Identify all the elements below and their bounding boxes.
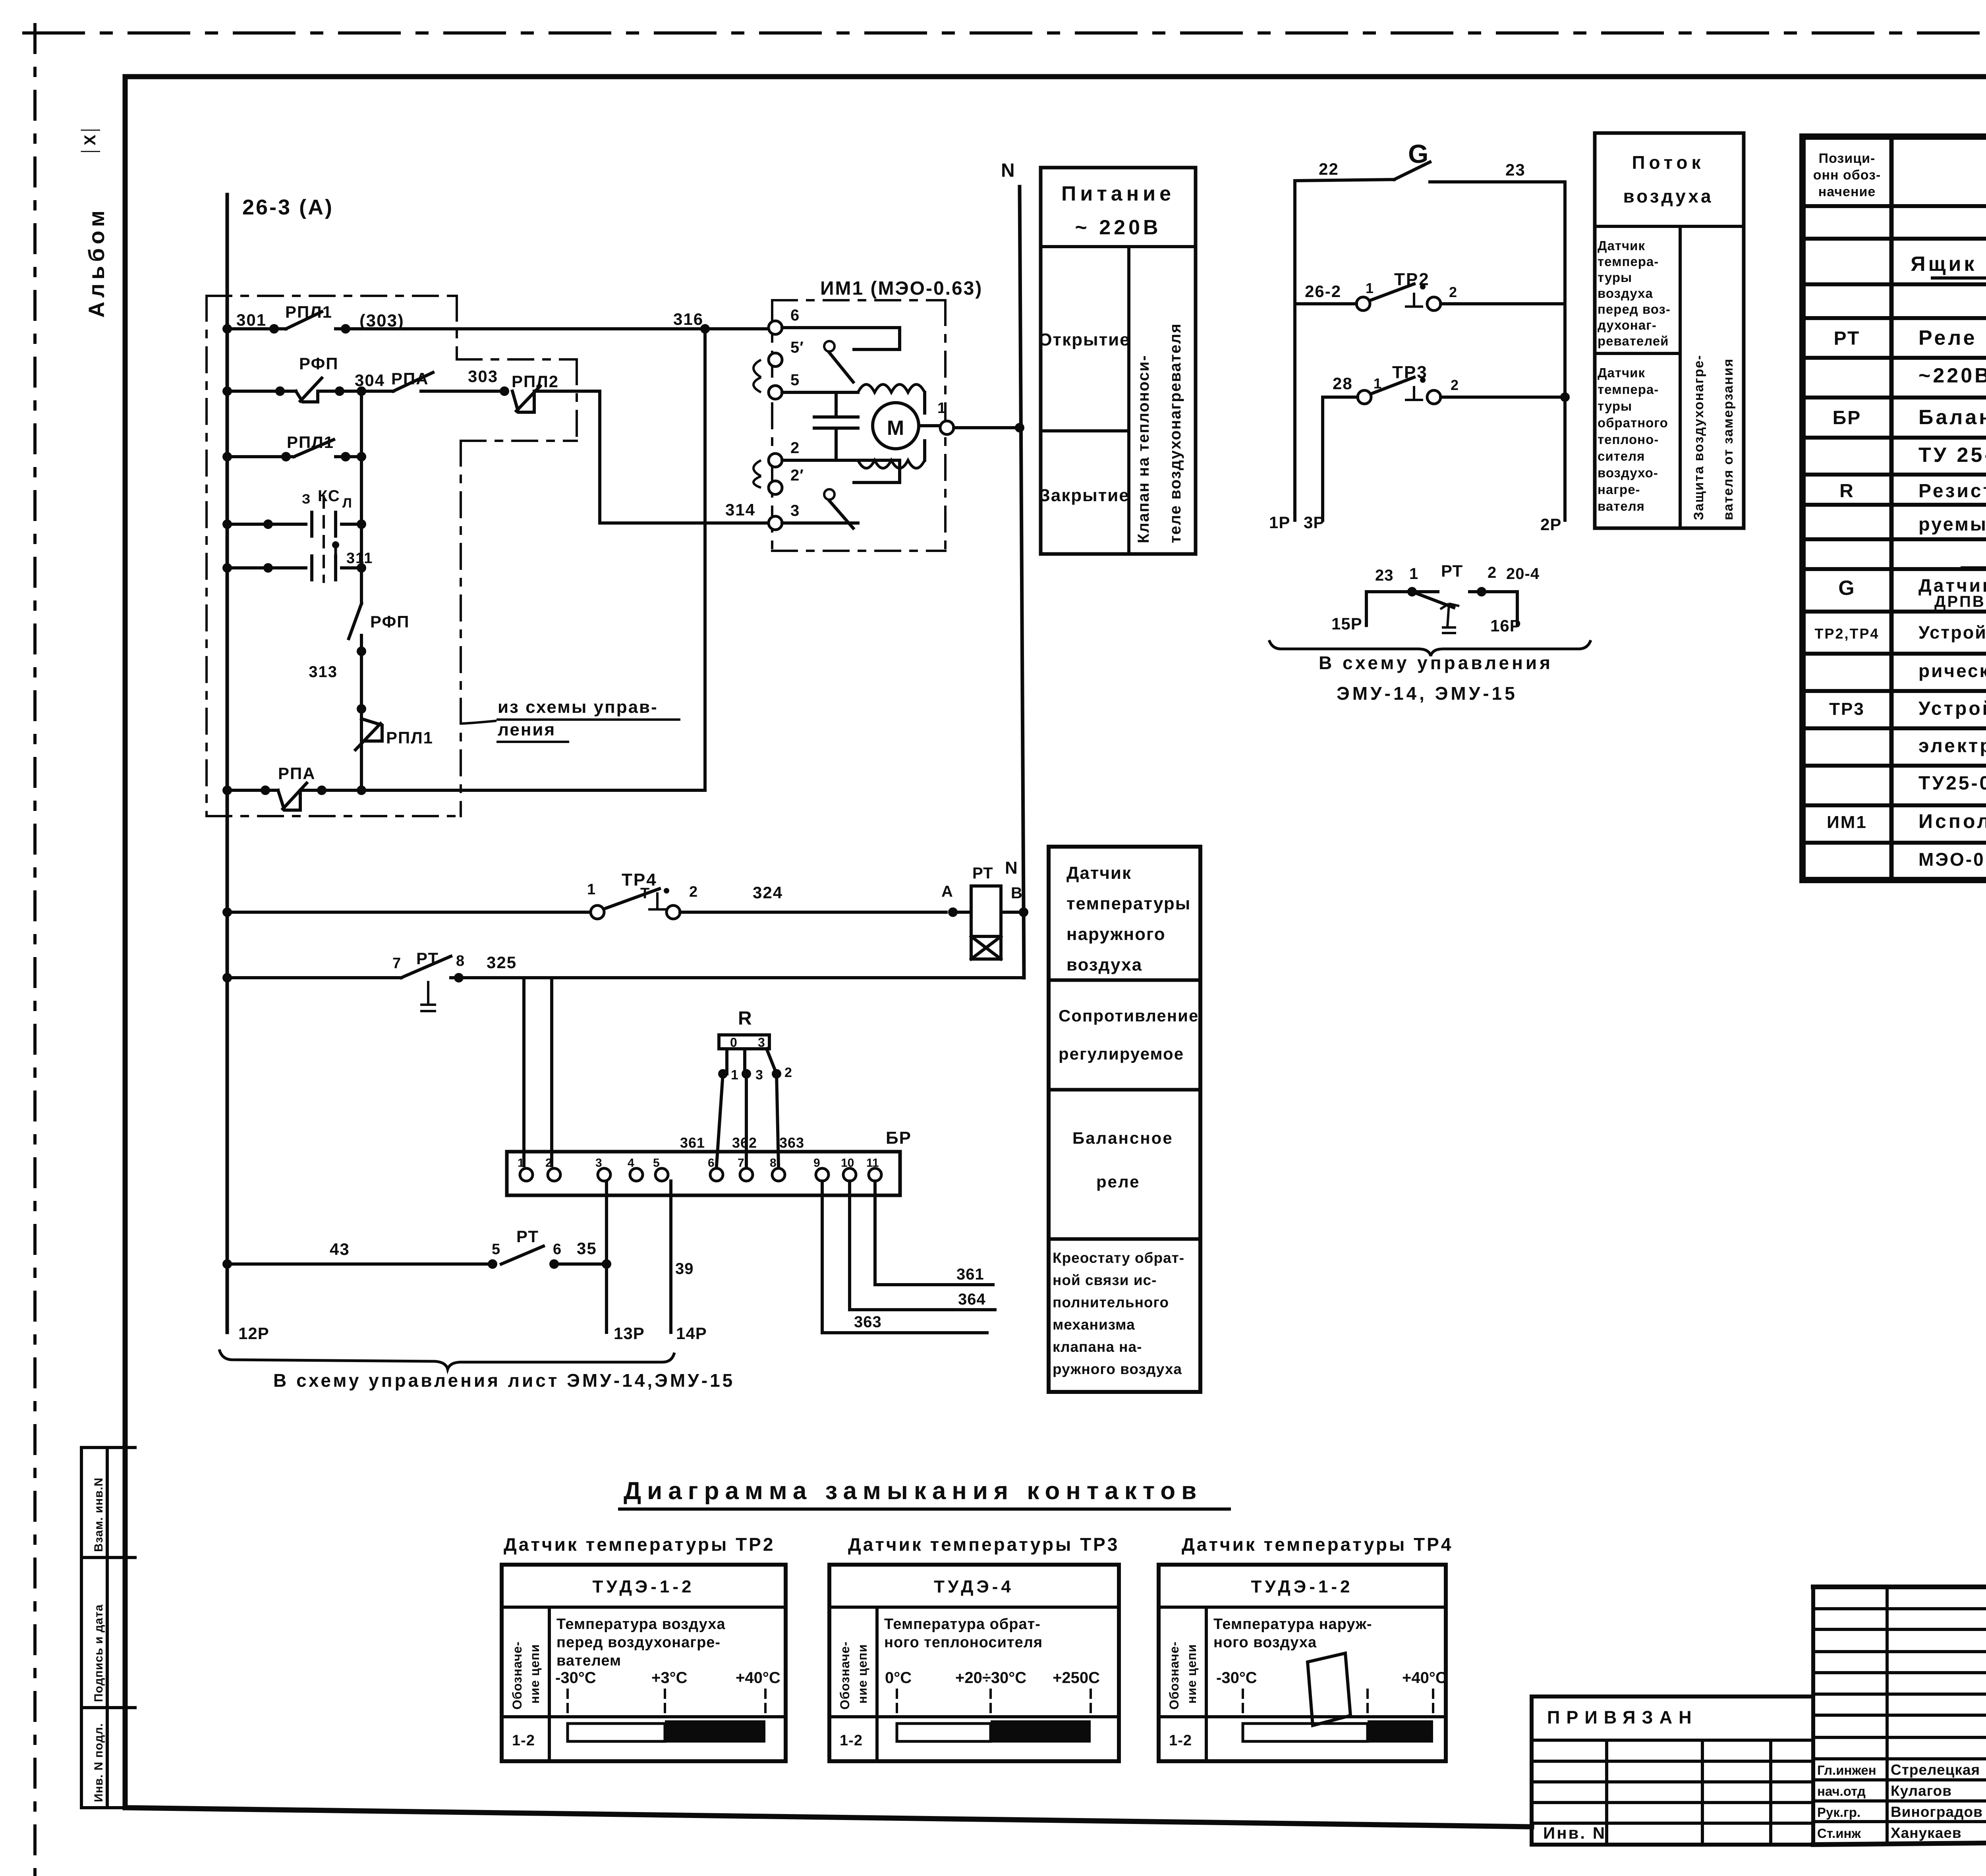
svg-text:3Р: 3Р bbox=[1304, 513, 1325, 532]
svg-text:Закрытие: Закрытие bbox=[1039, 486, 1130, 505]
svg-text:Сопротивление: Сопротивление bbox=[1059, 1006, 1199, 1025]
svg-text:Защита воздухонагре-: Защита воздухонагре- bbox=[1691, 355, 1706, 520]
svg-text:ДРПВ-2: ДРПВ-2 bbox=[1934, 593, 1986, 610]
svg-text:Поток: Поток bbox=[1632, 152, 1704, 173]
svg-text:Ханукаев: Ханукаев bbox=[1891, 1825, 1962, 1841]
svg-text:363: 363 bbox=[854, 1313, 882, 1331]
svg-text:Питание: Питание bbox=[1061, 182, 1175, 205]
svg-text:0°С: 0°С bbox=[885, 1669, 912, 1687]
svg-text:ТУ 25-15. 531-73: ТУ 25-15. 531-73 bbox=[1918, 444, 1986, 467]
svg-text:2: 2 bbox=[689, 884, 699, 900]
svg-text:ТУДЭ-1-2: ТУДЭ-1-2 bbox=[1251, 1577, 1353, 1596]
svg-text:1-2: 1-2 bbox=[512, 1732, 535, 1749]
svg-text:35: 35 bbox=[577, 1239, 597, 1258]
svg-text:воздухо-: воздухо- bbox=[1598, 465, 1658, 480]
svg-text:Т: Т bbox=[640, 885, 650, 902]
svg-text:316: 316 bbox=[673, 310, 703, 328]
svg-text:М: М bbox=[887, 417, 904, 440]
svg-text:1: 1 bbox=[937, 400, 946, 417]
svg-text:ЭМУ-14, ЭМУ-15: ЭМУ-14, ЭМУ-15 bbox=[1337, 683, 1518, 704]
svg-text:Виноградов: Виноградов bbox=[1891, 1804, 1983, 1820]
svg-text:3: 3 bbox=[790, 502, 800, 519]
svg-text:Устройство терморегулирующее: Устройство терморегулирующее bbox=[1918, 698, 1986, 719]
svg-text:-30°С: -30°С bbox=[1216, 1669, 1257, 1687]
svg-text:8: 8 bbox=[770, 1156, 777, 1170]
svg-text:ревателей: ревателей bbox=[1598, 334, 1669, 348]
svg-text:РПЛ2: РПЛ2 bbox=[512, 372, 559, 391]
svg-text:ние цепи: ние цепи bbox=[527, 1644, 542, 1704]
svg-text:1: 1 bbox=[731, 1067, 740, 1083]
svg-text:РПЛ1: РПЛ1 bbox=[285, 303, 332, 321]
svg-text:363: 363 bbox=[779, 1135, 804, 1151]
svg-text:7: 7 bbox=[738, 1156, 744, 1170]
svg-text:Подпись и дата: Подпись и дата bbox=[92, 1604, 105, 1702]
svg-text:Исполнительный механизм: Исполнительный механизм bbox=[1918, 810, 1986, 832]
svg-text:В: В bbox=[1011, 884, 1024, 902]
svg-text:2: 2 bbox=[1451, 377, 1460, 393]
svg-text:N: N bbox=[1001, 160, 1015, 181]
svg-text:руемый ПЭВР-20 200 Ом ГОСТ6513: руемый ПЭВР-20 200 Ом ГОСТ6513-75 bbox=[1918, 513, 1986, 535]
svg-text:+20÷30°С: +20÷30°С bbox=[955, 1669, 1026, 1687]
svg-text:Температура обрат-: Температура обрат- bbox=[884, 1616, 1041, 1633]
svg-text:Клапан на теплоноси-: Клапан на теплоноси- bbox=[1135, 355, 1152, 543]
svg-text:вателя: вателя bbox=[1598, 499, 1645, 513]
svg-text:рическое ТУДЭ-1-2 ТУ 25-02.10: рическое ТУДЭ-1-2 ТУ 25-02.1074-75 bbox=[1918, 660, 1986, 681]
svg-text:воздуха: воздуха bbox=[1598, 286, 1653, 301]
svg-text:нач.отд: нач.отд bbox=[1817, 1784, 1866, 1799]
svg-text:26-3 (А): 26-3 (А) bbox=[242, 195, 334, 219]
svg-text:13Р: 13Р bbox=[614, 1324, 645, 1343]
svg-text:ТР4: ТР4 bbox=[622, 870, 657, 890]
svg-text:N: N bbox=[1005, 858, 1018, 878]
svg-text:R: R bbox=[1839, 481, 1855, 502]
svg-text:(303): (303) bbox=[359, 311, 404, 330]
svg-text:Балансное: Балансное bbox=[1072, 1129, 1173, 1147]
svg-text:РФП: РФП bbox=[299, 354, 339, 373]
svg-text:23: 23 bbox=[1375, 567, 1394, 584]
svg-text:РПЛ1: РПЛ1 bbox=[287, 433, 334, 452]
svg-text:ТР2,ТР4: ТР2,ТР4 bbox=[1814, 625, 1879, 642]
svg-text:10: 10 bbox=[841, 1156, 854, 1170]
svg-text:РПА: РПА bbox=[391, 369, 429, 388]
svg-text:РТ: РТ bbox=[516, 1227, 539, 1246]
svg-text:Ст.инж: Ст.инж bbox=[1817, 1826, 1861, 1841]
svg-text:5: 5 bbox=[653, 1156, 660, 1170]
svg-text:362: 362 bbox=[732, 1135, 757, 1151]
svg-text:В схему управления лист ЭМ: В схему управления лист ЭМУ-14,ЭМУ-15 bbox=[273, 1370, 735, 1391]
svg-text:теле воздухонагревателя: теле воздухонагревателя bbox=[1167, 323, 1184, 543]
svg-text:6: 6 bbox=[790, 307, 800, 324]
svg-text:12Р: 12Р bbox=[238, 1324, 269, 1343]
svg-text:ние цепи: ние цепи bbox=[1184, 1644, 1199, 1704]
svg-text:нагре-: нагре- bbox=[1598, 482, 1640, 497]
svg-text:Обозначе-: Обозначе- bbox=[838, 1641, 852, 1710]
svg-text:воздуха: воздуха bbox=[1066, 955, 1142, 975]
svg-text:сителя: сителя bbox=[1598, 449, 1645, 463]
svg-text:1Р: 1Р bbox=[1269, 513, 1290, 532]
svg-text:16Р: 16Р bbox=[1490, 616, 1521, 635]
svg-text:КС: КС bbox=[318, 487, 340, 505]
svg-text:электрическое ТУДЭ-4: электрическое ТУДЭ-4 bbox=[1918, 735, 1986, 757]
svg-text:5: 5 bbox=[492, 1241, 501, 1258]
svg-text:клапана на-: клапана на- bbox=[1053, 1339, 1142, 1355]
svg-text:304: 304 bbox=[355, 371, 385, 390]
svg-text:вателя от замерзания: вателя от замерзания bbox=[1721, 358, 1736, 520]
svg-text:Датчик: Датчик bbox=[1598, 238, 1645, 253]
svg-text:Датчик температуры ТР4: Датчик температуры ТР4 bbox=[1182, 1534, 1453, 1555]
svg-text:РТ: РТ bbox=[972, 865, 993, 882]
svg-text:РПЛ1: РПЛ1 bbox=[386, 728, 433, 747]
svg-text:перед воз-: перед воз- bbox=[1598, 302, 1671, 317]
svg-text:Диаграмма замыкания конта: Диаграмма замыкания контактов bbox=[624, 1477, 1202, 1505]
svg-text:ПРИВЯЗАН: ПРИВЯЗАН bbox=[1547, 1707, 1698, 1727]
svg-text:механизма: механизма bbox=[1053, 1316, 1135, 1333]
svg-text:361: 361 bbox=[956, 1266, 984, 1283]
svg-text:ления: ления bbox=[498, 720, 556, 739]
svg-text:11: 11 bbox=[866, 1156, 879, 1170]
svg-text:БР: БР bbox=[1833, 407, 1862, 428]
svg-text:регулируемое: регулируемое bbox=[1059, 1044, 1184, 1063]
svg-text:Креостату обрат-: Креостату обрат- bbox=[1053, 1250, 1184, 1266]
svg-text:5: 5 bbox=[790, 371, 800, 389]
svg-text:ИМ1: ИМ1 bbox=[1827, 813, 1867, 832]
svg-text:6: 6 bbox=[708, 1156, 715, 1170]
svg-text:ружного воздуха: ружного воздуха bbox=[1053, 1361, 1182, 1377]
svg-text:Обозначе-: Обозначе- bbox=[510, 1641, 524, 1710]
svg-text:9: 9 bbox=[813, 1156, 820, 1170]
svg-text:ного воздуха: ного воздуха bbox=[1213, 1634, 1317, 1651]
svg-text:из схемы управ-: из схемы управ- bbox=[498, 697, 658, 717]
svg-text:РПА: РПА bbox=[278, 764, 316, 783]
svg-text:2: 2 bbox=[545, 1156, 552, 1170]
svg-text:G: G bbox=[1838, 577, 1855, 600]
svg-text:314: 314 bbox=[725, 500, 755, 519]
svg-text:2: 2 bbox=[1449, 284, 1458, 300]
svg-text:туры: туры bbox=[1598, 270, 1632, 285]
svg-text:Резистор эмалированный регули-: Резистор эмалированный регули- bbox=[1918, 481, 1986, 502]
svg-text:361: 361 bbox=[680, 1135, 705, 1151]
svg-text:1: 1 bbox=[1409, 565, 1418, 583]
svg-text:~ 220В: ~ 220В bbox=[1075, 216, 1161, 239]
svg-text:1-2: 1-2 bbox=[840, 1732, 863, 1749]
svg-text:Кулагов: Кулагов bbox=[1891, 1783, 1952, 1799]
svg-text:3: 3 bbox=[758, 1035, 766, 1050]
svg-text:Датчик: Датчик bbox=[1598, 365, 1645, 380]
svg-text:Устройство терморегулирующее э: Устройство терморегулирующее элект- bbox=[1918, 622, 1986, 643]
svg-text:ТР3: ТР3 bbox=[1829, 699, 1865, 719]
svg-text:15Р: 15Р bbox=[1331, 614, 1362, 633]
svg-text:температуры: температуры bbox=[1066, 894, 1191, 913]
svg-text:наружного: наружного bbox=[1066, 924, 1166, 944]
svg-text:реле: реле bbox=[1096, 1172, 1140, 1191]
svg-text:1: 1 bbox=[518, 1156, 524, 1170]
svg-text:полнительного: полнительного bbox=[1053, 1294, 1169, 1310]
svg-text:39: 39 bbox=[675, 1260, 694, 1278]
svg-text:4: 4 bbox=[628, 1156, 634, 1170]
svg-text:+40°С: +40°С bbox=[736, 1669, 780, 1687]
svg-text:Стрелецкая: Стрелецкая bbox=[1891, 1762, 1980, 1778]
svg-text:3: 3 bbox=[595, 1156, 602, 1170]
svg-text:325: 325 bbox=[487, 953, 517, 972]
svg-text:324: 324 bbox=[753, 883, 783, 902]
svg-text:обратного: обратного bbox=[1598, 415, 1668, 430]
svg-text:начение: начение bbox=[1818, 184, 1876, 199]
svg-text:313: 313 bbox=[309, 663, 338, 681]
svg-text:364: 364 bbox=[958, 1291, 986, 1308]
svg-text:ние цепи: ние цепи bbox=[855, 1644, 869, 1704]
svg-text:Температура воздуха: Температура воздуха bbox=[556, 1616, 726, 1633]
svg-text:1: 1 bbox=[1366, 280, 1375, 296]
svg-text:~220В |50ГЦ ТУ 16-523.472-79: ~220В |50ГЦ ТУ 16-523.472-79 bbox=[1918, 364, 1986, 387]
svg-text:Обозначе-: Обозначе- bbox=[1167, 1641, 1181, 1710]
svg-text:З: З bbox=[302, 492, 311, 507]
svg-text:МЭО-0.63/63-0.25 ТУ-01. 0321: МЭО-0.63/63-0.25 ТУ-01. 0321-76 bbox=[1918, 849, 1986, 870]
svg-text:Инв. N: Инв. N bbox=[1543, 1824, 1606, 1842]
svg-text:теплоно-: теплоно- bbox=[1598, 432, 1659, 447]
svg-text:1-2: 1-2 bbox=[1169, 1732, 1192, 1749]
svg-text:ТУ25-02. 1074-75: ТУ25-02. 1074-75 bbox=[1918, 773, 1986, 794]
svg-text:28: 28 bbox=[1333, 374, 1353, 393]
svg-text:2: 2 bbox=[790, 439, 800, 457]
svg-text:Л: Л bbox=[342, 496, 352, 511]
svg-text:Датчик: Датчик bbox=[1066, 863, 1132, 883]
svg-text:перед воздухонагре-: перед воздухонагре- bbox=[556, 1634, 721, 1651]
svg-text:ТУДЭ-4: ТУДЭ-4 bbox=[934, 1577, 1014, 1596]
svg-text:духонаг-: духонаг- bbox=[1598, 318, 1657, 332]
svg-text:В схему управления: В схему управления bbox=[1319, 652, 1553, 673]
svg-text:1: 1 bbox=[587, 881, 597, 898]
svg-text:Датчик температуры ТР3: Датчик температуры ТР3 bbox=[848, 1534, 1119, 1555]
svg-text:А: А bbox=[941, 883, 954, 900]
svg-text:ИМ1 (МЭО-0.63): ИМ1 (МЭО-0.63) bbox=[820, 278, 983, 299]
svg-text:8: 8 bbox=[456, 953, 466, 969]
svg-text:20-4: 20-4 bbox=[1506, 565, 1540, 583]
svg-text:2′: 2′ bbox=[790, 467, 804, 484]
svg-text:R: R bbox=[738, 1008, 752, 1029]
svg-text:темпера-: темпера- bbox=[1598, 254, 1659, 269]
svg-text:Взам. инв.N: Взам. инв.N bbox=[92, 1477, 105, 1552]
svg-text:5′: 5′ bbox=[790, 339, 804, 356]
svg-text:2: 2 bbox=[1488, 564, 1497, 581]
svg-text:Датчик температуры ТР2: Датчик температуры ТР2 bbox=[504, 1534, 775, 1555]
svg-text:РТ: РТ bbox=[416, 949, 439, 968]
svg-text:2: 2 bbox=[784, 1065, 793, 1080]
svg-text:Инв. N подл.: Инв. N подл. bbox=[92, 1723, 105, 1802]
svg-text:+3°С: +3°С bbox=[651, 1669, 688, 1687]
svg-text:│Х│: │Х│ bbox=[81, 124, 100, 156]
svg-text:БР: БР bbox=[886, 1128, 912, 1148]
svg-text:+250С: +250С bbox=[1053, 1669, 1100, 1687]
svg-text:2Р: 2Р bbox=[1540, 515, 1561, 534]
svg-text:Позици-: Позици- bbox=[1819, 151, 1876, 166]
svg-text:22: 22 bbox=[1319, 160, 1339, 178]
svg-text:Ящик регулирования 14Я ( 15Я: Ящик регулирования 14Я ( 15Я ) bbox=[1911, 253, 1986, 276]
svg-text:0: 0 bbox=[730, 1035, 738, 1050]
svg-text:вателем: вателем bbox=[556, 1652, 621, 1669]
svg-text:7: 7 bbox=[392, 955, 402, 972]
svg-text:РТ: РТ bbox=[1834, 328, 1860, 349]
svg-text:ТУДЭ-1-2: ТУДЭ-1-2 bbox=[593, 1577, 695, 1596]
svg-text:23: 23 bbox=[1505, 160, 1526, 179]
svg-text:-30°С: -30°С bbox=[555, 1669, 596, 1687]
svg-text:303: 303 bbox=[468, 367, 498, 386]
svg-text:Температура наруж-: Температура наруж- bbox=[1213, 1616, 1372, 1633]
svg-text:ного теплоносителя: ного теплоносителя bbox=[884, 1634, 1043, 1651]
svg-text:Гл.инжен: Гл.инжен bbox=[1817, 1763, 1876, 1778]
svg-text:Открытие: Открытие bbox=[1038, 330, 1130, 349]
svg-text:Реле времени РВП72-3221 У4: Реле времени РВП72-3221 У4 bbox=[1918, 326, 1986, 349]
svg-text:Балансное реле БР3 ~ 220В: Балансное реле БР3 ~ 220В bbox=[1918, 406, 1986, 429]
svg-text:туры: туры bbox=[1598, 399, 1632, 413]
svg-text:темпера-: темпера- bbox=[1598, 382, 1659, 397]
svg-text:онн обоз-: онн обоз- bbox=[1813, 168, 1881, 183]
svg-text:301: 301 bbox=[236, 311, 267, 329]
svg-text:26-2: 26-2 bbox=[1305, 282, 1341, 301]
svg-text:ной связи ис-: ной связи ис- bbox=[1053, 1272, 1157, 1288]
svg-text:воздуха: воздуха bbox=[1623, 186, 1713, 207]
svg-text:6: 6 bbox=[553, 1241, 562, 1258]
svg-text:3: 3 bbox=[755, 1067, 764, 1083]
svg-text:43: 43 bbox=[330, 1240, 350, 1258]
svg-text:РФП: РФП bbox=[370, 612, 410, 631]
svg-text:Альбом: Альбом bbox=[84, 207, 109, 318]
svg-text:РТ: РТ bbox=[1441, 562, 1463, 580]
svg-text:14Р: 14Р bbox=[676, 1324, 707, 1343]
svg-text:+40°С: +40°С bbox=[1402, 1669, 1447, 1687]
svg-text:Рук.гр.: Рук.гр. bbox=[1817, 1805, 1860, 1820]
